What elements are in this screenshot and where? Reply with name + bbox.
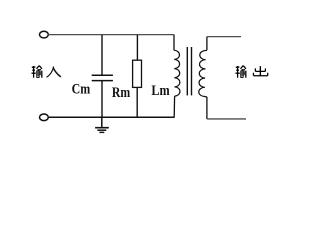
svg-text:Cm: Cm bbox=[72, 81, 91, 97]
wire: top bus (input top to primary) bbox=[48, 34, 174, 36]
transformer secondary winding bbox=[199, 37, 207, 119]
label 输出 (output) : glyph 输 bbox=[236, 66, 246, 78]
wire: output bottom bbox=[207, 118, 246, 120]
wire: output top bbox=[207, 36, 241, 38]
inductor Lm : transformer primary winding bbox=[174, 35, 180, 118]
ground bbox=[95, 117, 109, 132]
capacitor Cm bbox=[92, 35, 113, 117]
svg-text:Lm: Lm bbox=[151, 83, 169, 99]
terminal: input top bbox=[40, 31, 49, 38]
label 输入 (input) : glyph 入 bbox=[47, 67, 61, 78]
label 输入 (input) : glyph 输 bbox=[32, 66, 42, 78]
wire: bottom bus (input bottom to primary) bbox=[48, 116, 174, 118]
terminal: input bottom bbox=[40, 114, 49, 121]
resistor Rm bbox=[133, 35, 142, 117]
label 输出 (output) : glyph 出 bbox=[253, 66, 267, 76]
transformer core bbox=[186, 47, 188, 95]
svg-text:Rm: Rm bbox=[112, 85, 130, 101]
